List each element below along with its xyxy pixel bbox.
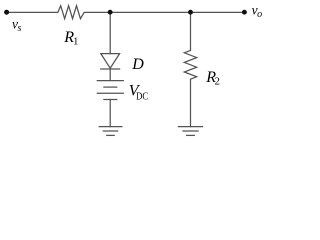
svg-text:vs: vs xyxy=(12,16,22,33)
svg-text:VDC: VDC xyxy=(129,82,148,102)
svg-text:R1: R1 xyxy=(63,29,78,47)
svg-text:vo: vo xyxy=(252,3,263,21)
svg-text:D: D xyxy=(131,56,144,73)
svg-text:R2: R2 xyxy=(205,69,220,87)
